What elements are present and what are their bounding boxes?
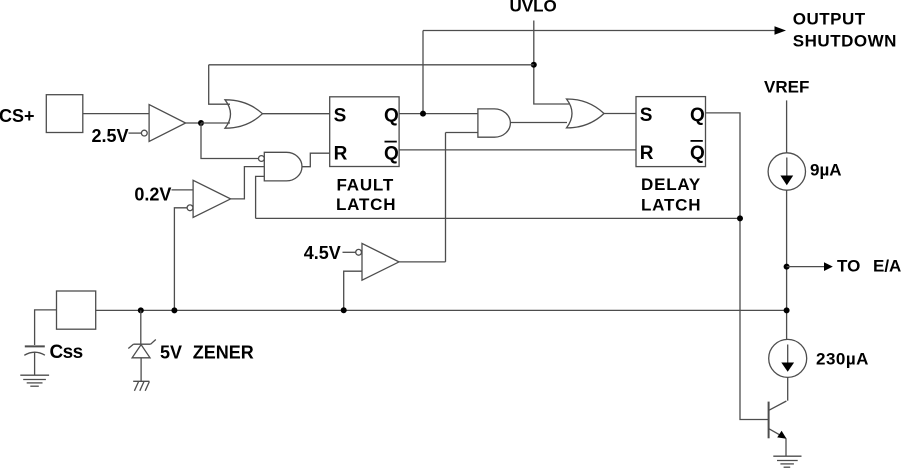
svg-text:FAULT: FAULT [337,175,395,194]
label 2.5V [92,126,129,146]
node A comparator output junction [198,120,204,126]
wire NAND output to R [302,153,330,167]
capacitor Css [24,346,45,375]
wire delay feedback line [256,217,740,219]
wire UVLO to fault OR branch [209,64,534,66]
svg-text:9µA: 9µA [810,161,842,180]
latch U5 delay latch box [636,97,706,167]
svg-text:LATCH: LATCH [336,195,396,214]
wire 4.5V comp lower input to soft-start [344,271,362,310]
wire U3 output to NAND middle input [231,167,265,199]
wire VREF down [786,100,788,152]
svg-text:Q: Q [690,143,705,164]
svg-text:UVLO: UVLO [510,0,557,16]
wire NAND bottom input feedback [256,176,265,218]
wire 4.5V to bubble [343,251,356,253]
wire U1 output to node A [186,122,201,124]
wire AND output to delay OR [510,122,567,124]
ground for Q1 [773,456,801,467]
block CS+ input box [46,95,83,133]
svg-text:LATCH: LATCH [641,195,701,214]
wire 2.5V to bubble [129,132,142,134]
svg-text:E/A: E/A [873,257,901,276]
label Css [50,342,83,363]
wire UVLO vertical to delay OR input [534,21,569,105]
overbar delay Qbar [691,140,703,142]
pin labels delay latch [640,105,705,164]
node soft-start VREF junction [784,307,790,313]
svg-text:R: R [640,143,654,164]
svg-text:S: S [334,106,347,127]
wire fault OR output to S [263,113,330,115]
op-amp U3 comparator 0.2V [187,180,231,217]
svg-text:S: S [640,105,653,126]
wire delay Q to transistor base [706,113,769,420]
wire node A down to NAND bubble input [201,123,258,159]
svg-text:0.2V: 0.2V [134,184,171,204]
pin labels fault latch [334,106,399,165]
current source I1 9uA [768,153,805,190]
wire down to fault OR top input [209,65,230,104]
and-gate G2 fault NAND [259,152,302,181]
label TO E/A [837,257,901,276]
node feedback junction [737,215,743,221]
svg-text:4.5V: 4.5V [304,243,341,263]
or-gate G4 delay OR [567,99,605,128]
svg-text:Css: Css [50,342,83,363]
wire 0.2V to comparator [172,189,194,191]
arrowhead output shutdown [775,26,787,35]
label CS+ [0,106,35,126]
label 5V ZENER [160,343,254,363]
wire delay OR output to S [604,113,636,115]
node UVLO junction [531,62,537,68]
svg-text:DELAY: DELAY [641,175,701,194]
wire soft-start main line [96,309,787,311]
label 0.2V [134,184,171,204]
svg-text:5V: 5V [160,343,182,363]
overbar fault Qbar [385,141,397,143]
svg-text:R: R [334,144,348,165]
node fault Q junction [420,111,426,117]
wire 9uA to 230uA [786,190,788,339]
label 9uA [810,161,842,180]
label OUTPUT SHUTDOWN [793,10,897,51]
svg-text:ZENER: ZENER [193,343,254,363]
svg-text:Q: Q [384,144,399,165]
label UVLO [510,0,557,16]
node zener tap [138,307,144,313]
label VREF [764,78,809,97]
wire TO E/A arrow [787,262,833,271]
wire bubble to soft-start node [174,208,187,311]
and-gate G3 delay AND [478,109,510,137]
node 4.5V tap [341,307,347,313]
wire fault Q to shutdown vertical [422,31,424,114]
or-gate G1 fault OR [225,100,263,128]
wire box to capacitor [35,310,57,345]
svg-text:230µA: 230µA [816,349,869,368]
zener diode D1 [128,310,156,381]
latch U2 fault latch box [330,97,399,167]
ground chassis for zener [133,381,149,391]
svg-text:Q: Q [384,106,399,127]
svg-text:CS+: CS+ [0,106,35,126]
svg-text:VREF: VREF [764,78,809,97]
svg-text:2.5V: 2.5V [92,126,129,146]
wire 4.5V comp output up to AND input [446,133,478,262]
wire node A to fault OR bottom input [201,122,230,124]
svg-text:TO: TO [837,257,860,276]
ground for Css [20,375,49,386]
wire output shutdown line [423,30,775,32]
label DELAY LATCH [641,175,701,214]
node TO E/A junction [784,264,790,270]
transistor Q1 [769,377,788,456]
wire fault Q output [399,113,478,115]
label 4.5V [304,243,341,263]
block soft-start box [57,291,96,329]
wire CS+ box to comparator U1 [83,113,149,115]
wire U4 output [399,261,446,263]
label FAULT LATCH [336,175,396,214]
node 0.2V tap [171,307,177,313]
svg-text:Q: Q [690,105,705,126]
wire fault Qbar to delay R [399,149,636,151]
label 230uA [816,349,869,368]
svg-text:OUTPUT: OUTPUT [793,10,866,29]
op-amp U4 comparator 4.5V [356,243,399,280]
op-amp U1 comparator CS [141,105,185,142]
svg-text:SHUTDOWN: SHUTDOWN [793,32,897,51]
current source I2 230uA [769,339,807,377]
